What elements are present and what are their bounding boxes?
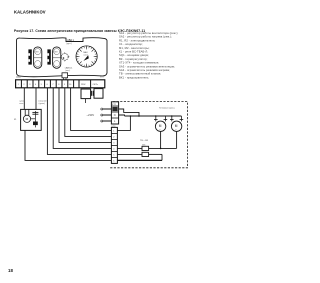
svg-text:N: N: [114, 114, 116, 117]
motor M1: [155, 121, 165, 131]
junction node M1 lead: [155, 115, 157, 117]
wire XT2 to motor bus: [119, 109, 139, 116]
svg-text:C1 - конденсатор;: C1 - конденсатор;: [119, 42, 143, 46]
jumper link: [91, 91, 93, 96]
svg-text:18: 18: [8, 268, 13, 273]
wire relay to XT3 cell6: [25, 130, 111, 160]
wire M1 return: [160, 132, 162, 150]
svg-text:Тепловая завеса: Тепловая завеса: [159, 108, 176, 110]
motor M1 leads with connectors: [154, 116, 167, 121]
svg-text:СЕТЬ: СЕТЬ: [93, 84, 99, 86]
svg-text:ХТ1: ХТ1: [16, 76, 21, 79]
wire from XT1 cell2 to relay: [23, 88, 25, 110]
wire B to C link: [161, 154, 163, 160]
wire XT1 cell5 elbow: [47, 88, 111, 155]
svg-text:t,АВД 1: t,АВД 1: [66, 39, 75, 42]
thermostat dial: [76, 46, 97, 67]
svg-text:ТВ - электромагнитный клапан;: ТВ - электромагнитный клапан;: [119, 72, 161, 76]
terminal block XT3: [111, 126, 117, 164]
svg-text:ВКЛ: ВКЛ: [54, 52, 57, 54]
jumper block under СЕТЬ terminal: [94, 89, 103, 99]
thermal cutout ВП2: [142, 152, 149, 156]
junction node M2 lead: [171, 115, 173, 117]
svg-text:SA2 - регулятор работы нагрева: SA2 - регулятор работы нагрева (реж.);: [119, 35, 172, 39]
motor supply bus: [125, 115, 182, 117]
switch SA1 rocker: [34, 47, 42, 68]
selector knob: [60, 52, 69, 61]
switch SA2 rocker: [53, 47, 61, 68]
svg-text:(авт.): (авт.): [65, 70, 70, 72]
svg-text:R1, R2 - электродвигатели;: R1, R2 - электродвигатели;: [119, 38, 156, 42]
door switch SQ1 on panel bottom: [62, 73, 68, 80]
svg-text:SQ1 - концевик двери;: SQ1 - концевик двери;: [119, 53, 149, 57]
230V supply terminals: [101, 108, 112, 122]
junction node bus feed: [138, 115, 140, 117]
wire XT1 cell8 elbow: [65, 88, 112, 137]
svg-text:РЕЖ: РЕЖ: [81, 84, 86, 86]
jumper block under РЕЖ terminal: [81, 89, 91, 103]
curtain dashed enclosure: [109, 102, 188, 168]
wire M2 return: [176, 132, 178, 149]
svg-text:(пульт): (пульт): [39, 103, 46, 105]
svg-text:KALASHNIKOV: KALASHNIKOV: [14, 10, 46, 15]
wire XT1 cell7 elbow: [59, 88, 111, 143]
motor M2 leads with connectors: [170, 116, 183, 121]
svg-text:~230V: ~230V: [87, 113, 95, 117]
heater wire C: [117, 159, 162, 161]
motor M2: [171, 121, 181, 131]
svg-text:ВК1 - предохранитель.: ВК1 - предохранитель.: [119, 75, 150, 79]
svg-text:SA3 - ограничитель режимов вен: SA3 - ограничитель режимов вентиляции;: [119, 64, 175, 68]
svg-text:конт.: конт.: [19, 103, 24, 105]
terminal block XT2: [111, 102, 118, 124]
wire bus to XT3 cell1: [117, 116, 130, 130]
svg-text:SA4 - ограничитель режимов наг: SA4 - ограничитель режимов нагрева;: [119, 68, 170, 72]
heater wire A: [117, 147, 176, 149]
wire XT2 N jog to bus: [119, 115, 125, 116]
switch SA1 lever block: [28, 49, 31, 64]
switch SA2 lever block: [47, 49, 50, 64]
control panel box: [17, 38, 108, 77]
svg-text:К1 - реле ВС-ТЕАБ-Л;: К1 - реле ВС-ТЕАБ-Л;: [119, 50, 148, 54]
junction node bus-XT3 tap: [130, 115, 132, 117]
svg-text:SA1 - регулятор работы вентиля: SA1 - регулятор работы вентилятора (реж.…: [119, 31, 179, 35]
thermal cutout ВП1: [142, 145, 149, 151]
heater wire B: [117, 153, 162, 155]
svg-text:ХТ1-ХТ4 - колодки клеммные;: ХТ1-ХТ4 - колодки клеммные;: [119, 61, 159, 65]
svg-text:ВК - терморегулятор;: ВК - терморегулятор;: [119, 57, 148, 61]
terminal block XT1: [16, 80, 105, 88]
svg-text:ХТ4: ХТ4: [100, 76, 103, 78]
svg-text:М1, М2 - вентиляторы;: М1, М2 - вентиляторы;: [119, 46, 150, 50]
relay K1 box: [21, 109, 42, 130]
svg-text:(руч.): (руч.): [66, 43, 72, 45]
wire from XT1 cell4 to relay: [35, 88, 37, 110]
svg-text:ВКЛ: ВКЛ: [35, 52, 38, 54]
svg-text:ТВ + ВК: ТВ + ВК: [140, 140, 149, 142]
legend: [119, 31, 179, 79]
wire XT1 cell9 elbow: [71, 88, 112, 131]
wire XT1 cell6 elbow: [53, 88, 111, 149]
